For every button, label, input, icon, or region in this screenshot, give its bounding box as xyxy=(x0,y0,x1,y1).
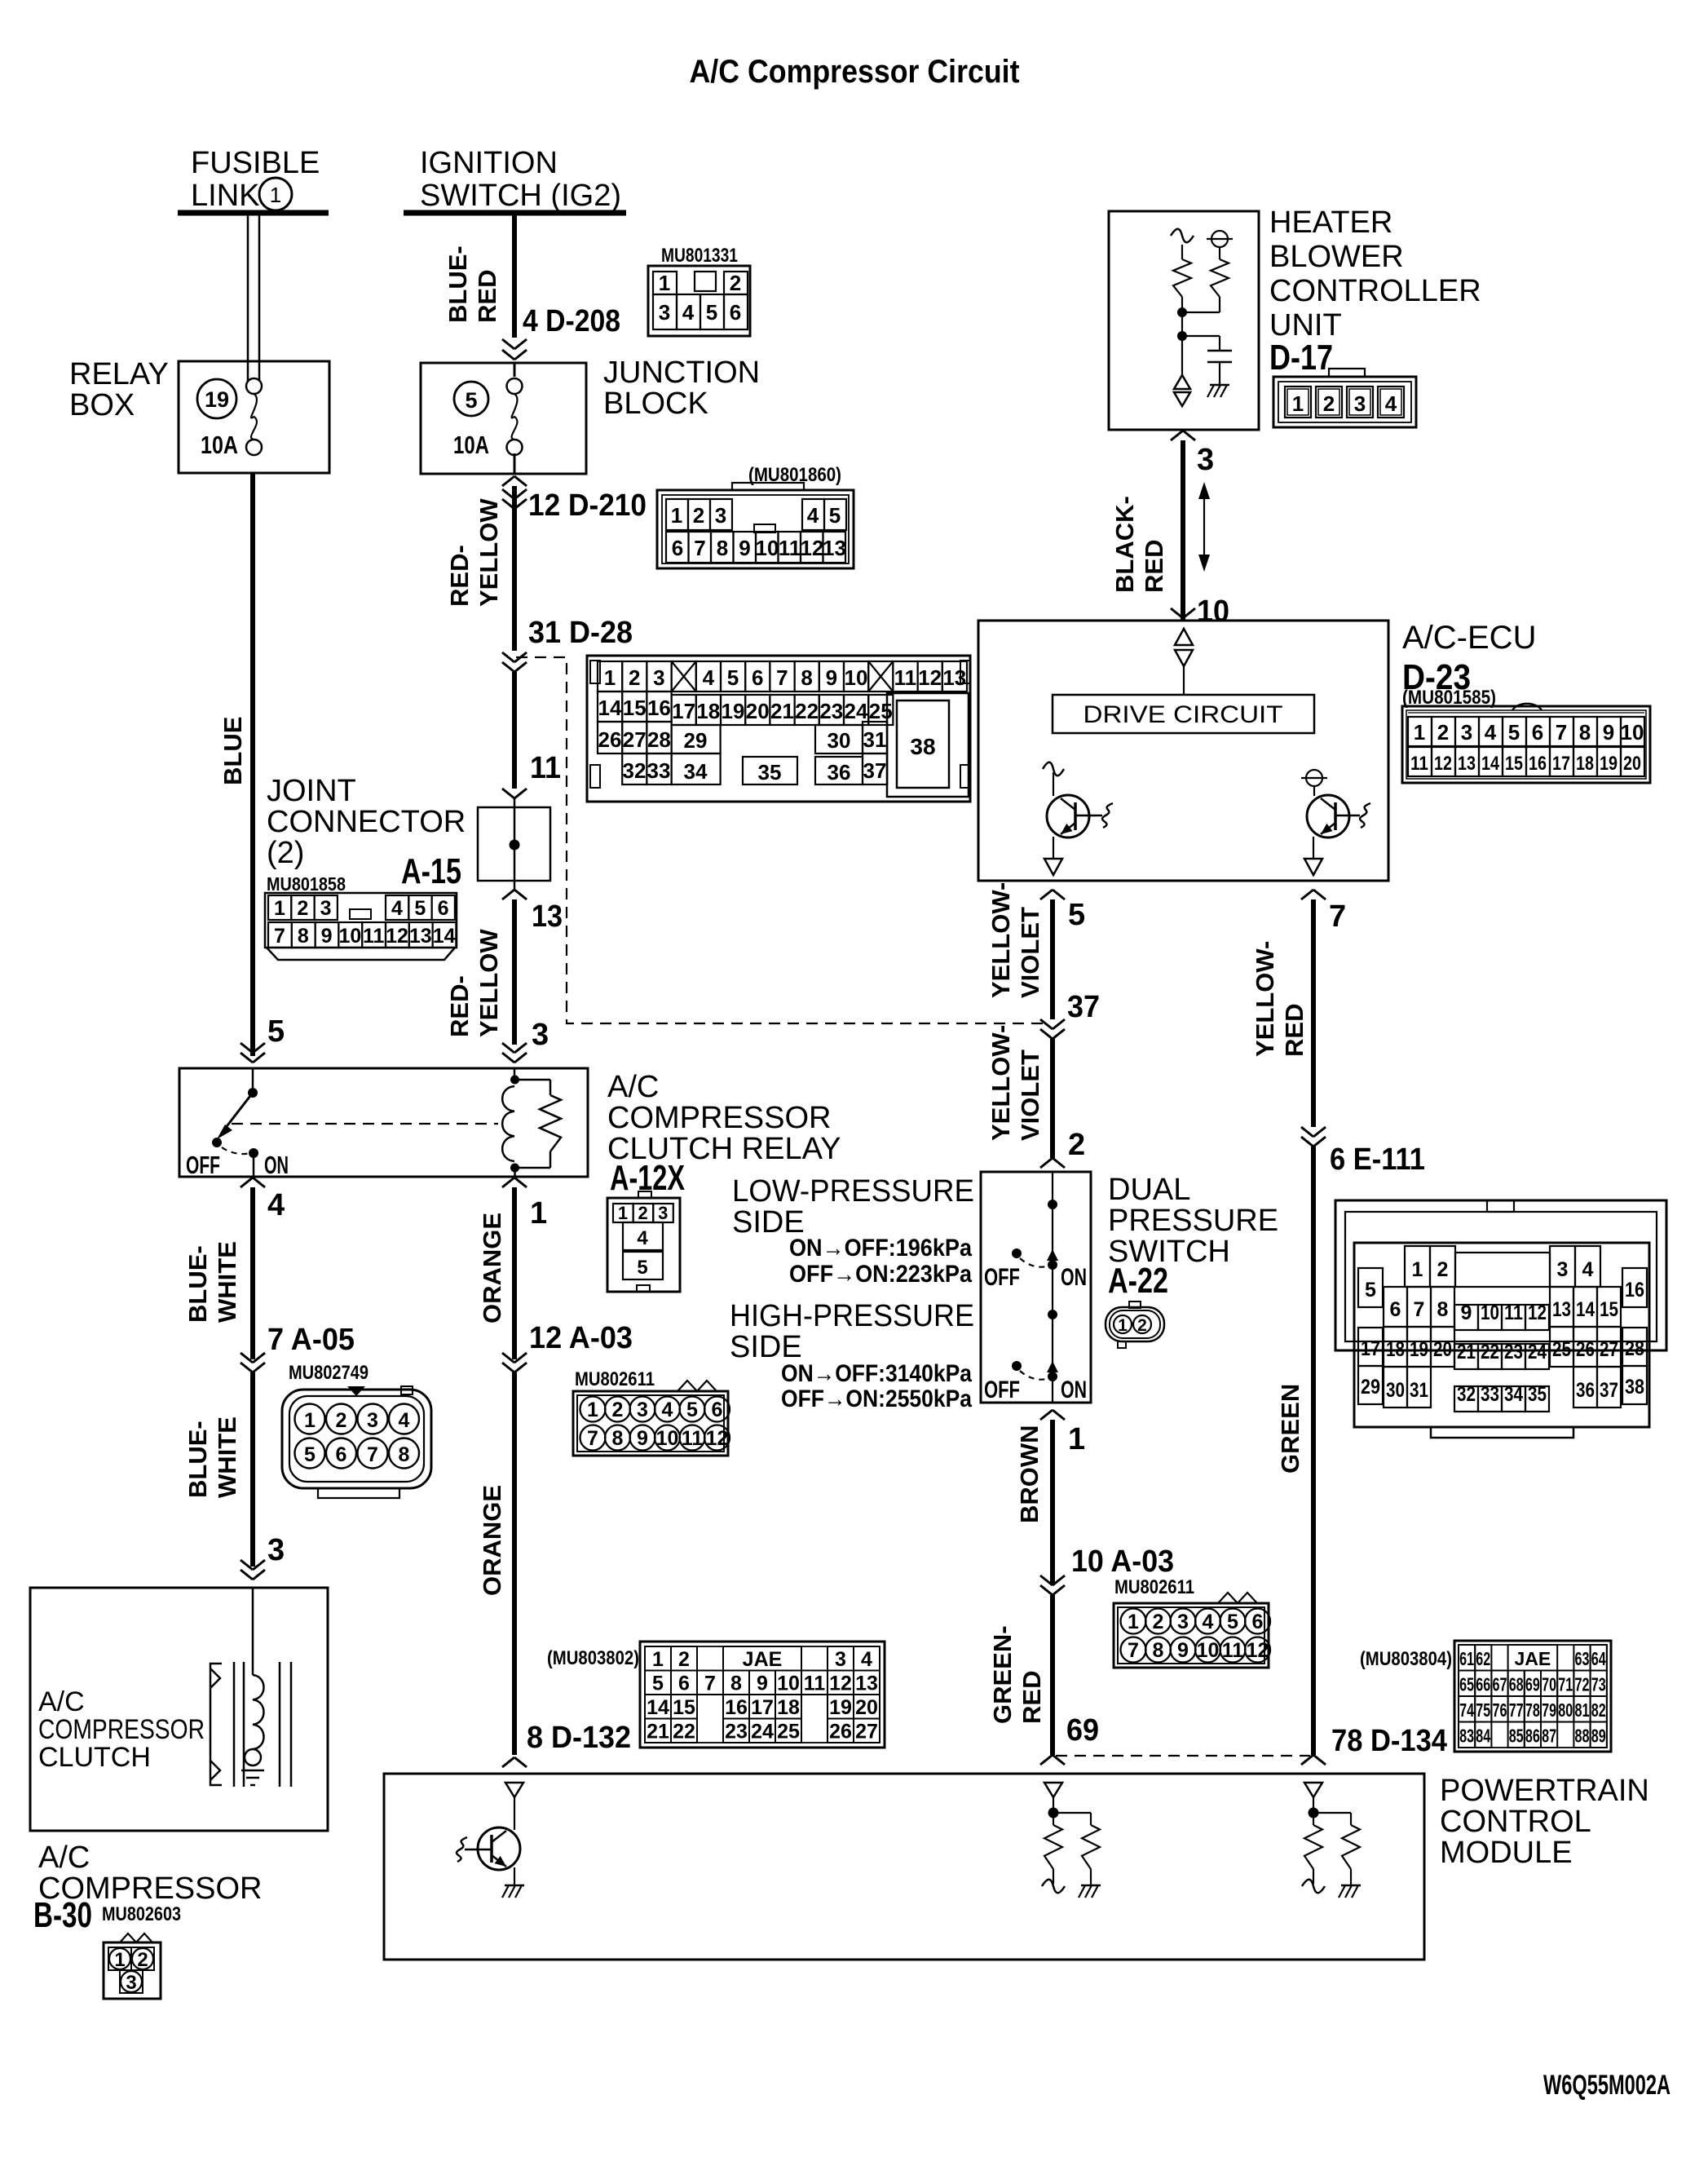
svg-text:26: 26 xyxy=(598,727,622,752)
svg-text:B-30: B-30 xyxy=(33,1895,92,1935)
connector D-210 MU801860 pin diagram xyxy=(657,464,854,568)
svg-text:2: 2 xyxy=(1137,1316,1147,1335)
svg-text:9: 9 xyxy=(637,1427,648,1450)
svg-text:16: 16 xyxy=(725,1696,748,1719)
svg-text:BOX: BOX xyxy=(69,388,135,422)
svg-text:RELAY: RELAY xyxy=(69,357,169,391)
svg-text:BLUE-: BLUE- xyxy=(183,1421,212,1498)
svg-text:2: 2 xyxy=(638,1203,647,1223)
svg-text:3: 3 xyxy=(320,897,332,920)
svg-text:9: 9 xyxy=(826,665,837,690)
svg-text:ON: ON xyxy=(1061,1264,1087,1291)
svg-text:14: 14 xyxy=(1481,753,1500,775)
svg-text:JUNCTION: JUNCTION xyxy=(603,356,760,390)
dual pressure switch box A-22 xyxy=(981,1172,1091,1403)
svg-text:4: 4 xyxy=(391,897,403,920)
svg-text:1: 1 xyxy=(1068,1422,1085,1456)
svg-text:A/C: A/C xyxy=(38,1686,85,1717)
svg-text:4: 4 xyxy=(399,1409,410,1432)
svg-text:15: 15 xyxy=(1600,1298,1618,1321)
svg-text:9: 9 xyxy=(1177,1639,1189,1662)
connector A-03 MU802611 pin diagram (first) xyxy=(573,1368,730,1456)
svg-text:2: 2 xyxy=(137,1949,148,1971)
svg-text:RED: RED xyxy=(473,270,501,323)
label D-23 xyxy=(1402,657,1496,709)
svg-text:MU802603: MU802603 xyxy=(102,1903,181,1925)
svg-text:(MU803804): (MU803804) xyxy=(1360,1648,1452,1670)
svg-text:12: 12 xyxy=(801,536,824,560)
svg-text:6: 6 xyxy=(336,1443,347,1466)
label 78 D-134 xyxy=(1301,1724,1447,1765)
svg-text:OFF: OFF xyxy=(984,1377,1020,1403)
svg-text:38: 38 xyxy=(910,734,935,759)
svg-text:64: 64 xyxy=(1591,1648,1606,1669)
svg-text:3: 3 xyxy=(1197,443,1214,477)
svg-text:13: 13 xyxy=(942,665,966,690)
svg-text:5: 5 xyxy=(706,300,717,325)
ECU transistor Q2 xyxy=(1301,770,1370,875)
svg-text:12: 12 xyxy=(386,925,408,948)
svg-text:3: 3 xyxy=(367,1409,378,1432)
svg-text:IGNITION: IGNITION xyxy=(420,146,558,180)
svg-text:18: 18 xyxy=(777,1696,800,1719)
wire to compressor clutch pin 3 xyxy=(241,1533,285,1580)
svg-text:19: 19 xyxy=(1600,753,1618,775)
svg-text:31: 31 xyxy=(1410,1379,1428,1402)
svg-text:BLUE-: BLUE- xyxy=(183,1245,212,1323)
svg-text:HIGH-PRESSURE: HIGH-PRESSURE xyxy=(730,1299,974,1333)
svg-text:MU802611: MU802611 xyxy=(575,1368,655,1390)
label A-22 xyxy=(1108,1261,1168,1301)
fusible link wire (double line) xyxy=(248,215,259,383)
svg-text:10: 10 xyxy=(1621,720,1644,745)
PCM transistor for clutch relay drive xyxy=(457,1783,524,1898)
svg-text:YELLOW-: YELLOW- xyxy=(986,1025,1015,1141)
svg-text:6: 6 xyxy=(752,665,763,690)
svg-text:6: 6 xyxy=(672,536,683,560)
svg-text:21: 21 xyxy=(647,1721,669,1743)
svg-text:MU801858: MU801858 xyxy=(267,873,346,895)
svg-text:BLUE: BLUE xyxy=(218,717,247,785)
svg-text:1: 1 xyxy=(1128,1611,1139,1633)
svg-text:11: 11 xyxy=(894,665,917,690)
svg-text:BLOCK: BLOCK xyxy=(603,387,708,421)
svg-text:7: 7 xyxy=(1329,899,1346,934)
svg-text:85: 85 xyxy=(1509,1726,1524,1747)
svg-text:37: 37 xyxy=(863,758,887,783)
heater blower controller unit label xyxy=(1269,205,1481,342)
svg-text:30: 30 xyxy=(1386,1379,1405,1402)
svg-text:5: 5 xyxy=(686,1399,698,1421)
A/C compressor clutch box xyxy=(30,1588,328,1831)
svg-text:84: 84 xyxy=(1476,1726,1490,1747)
svg-text:13: 13 xyxy=(409,925,432,948)
svg-text:JAE: JAE xyxy=(743,1648,783,1671)
ignition switch bus bar xyxy=(404,210,626,216)
svg-text:28: 28 xyxy=(1625,1337,1644,1360)
heater blower interior left resistor branch xyxy=(1171,229,1194,375)
svg-text:RED: RED xyxy=(1280,1004,1309,1057)
svg-text:2: 2 xyxy=(297,897,308,920)
svg-text:21: 21 xyxy=(770,699,794,723)
svg-text:66: 66 xyxy=(1476,1674,1490,1695)
svg-text:COMPRESSOR: COMPRESSOR xyxy=(607,1101,831,1135)
svg-text:4: 4 xyxy=(267,1188,285,1222)
svg-text:72: 72 xyxy=(1575,1674,1590,1695)
svg-text:2: 2 xyxy=(693,503,704,528)
svg-text:10: 10 xyxy=(656,1427,679,1450)
svg-text:15: 15 xyxy=(673,1696,695,1719)
svg-text:1: 1 xyxy=(659,271,670,295)
svg-text:MU801331: MU801331 xyxy=(661,245,738,267)
wire RED-YELLOW pins 11-13 xyxy=(267,751,563,1052)
label 69 xyxy=(1040,1713,1099,1765)
svg-text:CONTROL: CONTROL xyxy=(1440,1805,1591,1839)
svg-text:RED-: RED- xyxy=(445,545,474,607)
connector break 10 A-03 xyxy=(988,1545,1174,1755)
svg-text:4 D-208: 4 D-208 xyxy=(523,304,620,338)
svg-text:OFF: OFF xyxy=(984,1264,1020,1291)
svg-text:38: 38 xyxy=(1625,1376,1644,1399)
svg-text:5: 5 xyxy=(1508,720,1520,745)
PCM pull-up resistors for pressure switch input xyxy=(1042,1783,1101,1898)
svg-text:PRESSURE: PRESSURE xyxy=(1108,1204,1278,1238)
svg-text:8: 8 xyxy=(801,665,812,690)
connector D-17 pin diagram xyxy=(1273,369,1416,427)
svg-text:68: 68 xyxy=(1509,1674,1524,1695)
svg-text:3: 3 xyxy=(715,503,726,528)
svg-text:12: 12 xyxy=(1528,1301,1547,1324)
svg-text:RED-: RED- xyxy=(445,975,474,1037)
svg-text:14: 14 xyxy=(433,925,456,948)
junction block box xyxy=(421,363,586,474)
svg-text:JOINT: JOINT xyxy=(267,774,356,808)
svg-text:10: 10 xyxy=(777,1673,800,1695)
svg-text:37: 37 xyxy=(1600,1379,1618,1402)
svg-text:7: 7 xyxy=(776,665,788,690)
connector A-03 MU802611 pin diagram (second) xyxy=(1114,1576,1270,1668)
svg-text:2: 2 xyxy=(1153,1611,1164,1633)
junction block label xyxy=(603,356,760,421)
svg-text:10: 10 xyxy=(1197,1639,1220,1662)
svg-text:13: 13 xyxy=(1552,1298,1571,1321)
svg-text:22: 22 xyxy=(795,699,819,723)
svg-text:MU802611: MU802611 xyxy=(1114,1576,1194,1598)
svg-text:12 D-210: 12 D-210 xyxy=(528,488,647,523)
svg-text:19: 19 xyxy=(829,1696,852,1719)
svg-text:SWITCH (IG2): SWITCH (IG2) xyxy=(420,179,621,213)
svg-text:9: 9 xyxy=(757,1673,768,1695)
svg-text:30: 30 xyxy=(828,728,851,753)
svg-text:1: 1 xyxy=(114,1949,125,1971)
svg-text:WHITE: WHITE xyxy=(213,1241,241,1323)
svg-text:1: 1 xyxy=(1414,720,1425,745)
svg-text:12 A-03: 12 A-03 xyxy=(529,1321,633,1355)
svg-text:5: 5 xyxy=(727,665,739,690)
wire BLUE-RED from ignition switch xyxy=(444,213,514,338)
svg-text:7: 7 xyxy=(587,1427,598,1450)
svg-text:37: 37 xyxy=(1067,990,1100,1024)
svg-text:2: 2 xyxy=(678,1648,690,1671)
svg-text:ON→OFF:3140kPa: ON→OFF:3140kPa xyxy=(781,1360,972,1387)
svg-text:24: 24 xyxy=(1528,1341,1547,1363)
svg-text:12: 12 xyxy=(918,665,942,690)
svg-text:MODULE: MODULE xyxy=(1440,1836,1573,1870)
svg-text:17: 17 xyxy=(1552,753,1570,775)
wire ORANGE relay to PCM xyxy=(478,1178,547,1359)
svg-text:3: 3 xyxy=(835,1648,846,1671)
wire YELLOW-RED ECU to E-111 xyxy=(1251,890,1346,1127)
svg-text:6: 6 xyxy=(1532,720,1543,745)
svg-text:2: 2 xyxy=(730,271,741,295)
svg-text:11: 11 xyxy=(1222,1639,1244,1662)
svg-text:12: 12 xyxy=(1247,1639,1269,1662)
pressure switch internal wire xyxy=(1048,1172,1057,1403)
wire BLUE-WHITE below relay xyxy=(183,1178,285,1359)
svg-text:6: 6 xyxy=(712,1399,723,1421)
svg-text:8: 8 xyxy=(1153,1639,1164,1662)
svg-text:8: 8 xyxy=(1579,720,1591,745)
svg-text:10: 10 xyxy=(756,536,779,560)
svg-text:CONTROLLER: CONTROLLER xyxy=(1269,274,1481,308)
wire BLACK-RED heater to A/C-ECU xyxy=(1110,431,1214,621)
connector A-12X pin diagram xyxy=(607,1191,680,1292)
svg-text:6 E-111: 6 E-111 xyxy=(1330,1142,1425,1177)
svg-text:81: 81 xyxy=(1575,1699,1590,1721)
svg-text:7: 7 xyxy=(1556,720,1567,745)
svg-text:31 D-28: 31 D-28 xyxy=(528,616,633,650)
break above clutch relay xyxy=(241,1043,527,1063)
connector B-30 pin diagram xyxy=(104,1933,161,1999)
connector break 7 A-05 xyxy=(183,1323,355,1567)
svg-text:62: 62 xyxy=(1476,1648,1490,1669)
svg-text:17: 17 xyxy=(1361,1337,1380,1360)
svg-text:5: 5 xyxy=(465,388,477,413)
ECU input triangles xyxy=(1175,629,1193,695)
svg-text:12: 12 xyxy=(706,1427,729,1450)
svg-text:23: 23 xyxy=(1504,1341,1523,1363)
svg-text:79: 79 xyxy=(1542,1699,1556,1721)
svg-text:8: 8 xyxy=(1437,1298,1449,1321)
heater blower interior right resistor branch xyxy=(1182,231,1233,312)
svg-text:5: 5 xyxy=(829,503,841,528)
svg-text:VIOLET: VIOLET xyxy=(1016,1050,1044,1141)
svg-text:5: 5 xyxy=(637,1257,647,1279)
svg-text:5: 5 xyxy=(267,1014,285,1049)
svg-text:3: 3 xyxy=(1354,391,1366,416)
svg-text:61: 61 xyxy=(1459,1648,1474,1669)
svg-text:25: 25 xyxy=(869,699,893,723)
svg-text:24: 24 xyxy=(751,1721,774,1743)
svg-text:10A: 10A xyxy=(201,431,238,459)
svg-text:3: 3 xyxy=(637,1399,648,1421)
svg-text:13: 13 xyxy=(855,1673,878,1695)
connector D-132 MU803802 pin diagram xyxy=(547,1642,885,1748)
svg-text:19: 19 xyxy=(205,387,229,412)
svg-text:35: 35 xyxy=(1528,1383,1547,1406)
svg-text:13: 13 xyxy=(532,899,563,934)
svg-text:DRIVE CIRCUIT: DRIVE CIRCUIT xyxy=(1083,701,1283,728)
svg-text:OFF→ON:223kPa: OFF→ON:223kPa xyxy=(789,1261,972,1288)
svg-text:9: 9 xyxy=(1461,1301,1472,1324)
svg-text:BLUE-: BLUE- xyxy=(444,245,472,323)
svg-text:36: 36 xyxy=(828,760,851,784)
ignition switch (IG2) label xyxy=(420,146,621,213)
svg-text:67: 67 xyxy=(1493,1674,1507,1695)
connector joint 31 D-28 xyxy=(445,616,633,1037)
clutch relay label xyxy=(607,1070,841,1166)
svg-text:23: 23 xyxy=(725,1721,748,1743)
svg-text:24: 24 xyxy=(845,699,868,723)
svg-text:7 A-05: 7 A-05 xyxy=(267,1323,355,1357)
connector E-111 pin diagram xyxy=(1335,1200,1666,1438)
svg-text:69: 69 xyxy=(1525,1674,1540,1695)
svg-text:12: 12 xyxy=(1434,753,1452,775)
svg-text:BLOWER: BLOWER xyxy=(1269,240,1404,274)
svg-text:SIDE: SIDE xyxy=(730,1330,802,1364)
svg-text:34: 34 xyxy=(1504,1383,1523,1406)
svg-text:4: 4 xyxy=(861,1648,872,1671)
drawing number W6Q55M002A xyxy=(1543,2070,1670,2101)
relay switch OFF/ON xyxy=(186,1068,289,1179)
svg-text:22: 22 xyxy=(673,1721,695,1743)
svg-text:8: 8 xyxy=(399,1443,410,1466)
svg-text:1: 1 xyxy=(652,1648,664,1671)
svg-text:5: 5 xyxy=(414,897,426,920)
svg-text:10A: 10A xyxy=(453,431,489,459)
svg-text:MU802749: MU802749 xyxy=(289,1362,369,1384)
svg-text:3: 3 xyxy=(658,1203,668,1223)
svg-text:3: 3 xyxy=(1461,720,1472,745)
relay box xyxy=(179,361,329,473)
svg-text:ON: ON xyxy=(264,1151,289,1179)
svg-text:65: 65 xyxy=(1459,1674,1474,1695)
svg-text:1: 1 xyxy=(304,1409,316,1432)
svg-text:1: 1 xyxy=(1292,391,1304,416)
wire BROWN pressure switch to A-03 xyxy=(1015,1410,1085,1585)
svg-text:32: 32 xyxy=(1457,1383,1476,1406)
svg-text:6: 6 xyxy=(730,300,741,325)
svg-text:RED: RED xyxy=(1017,1671,1046,1724)
fuse 5 10A in junction block xyxy=(453,363,523,474)
svg-text:17: 17 xyxy=(672,699,695,723)
svg-text:CLUTCH: CLUTCH xyxy=(38,1742,151,1773)
svg-text:78 D-134: 78 D-134 xyxy=(1331,1724,1447,1758)
drive circuit box xyxy=(1053,695,1314,733)
svg-text:36: 36 xyxy=(1576,1379,1595,1402)
svg-text:63: 63 xyxy=(1575,1648,1590,1669)
svg-text:4: 4 xyxy=(682,300,695,325)
svg-text:9: 9 xyxy=(321,925,333,948)
svg-text:HEATER: HEATER xyxy=(1269,205,1392,240)
connector A-15 MU801858 pin diagram xyxy=(265,873,457,960)
connector A-22 pin diagram xyxy=(1106,1301,1164,1348)
svg-text:6: 6 xyxy=(1252,1611,1264,1633)
svg-text:26: 26 xyxy=(829,1721,852,1743)
dual pressure switch label xyxy=(1108,1173,1278,1269)
svg-text:2: 2 xyxy=(629,665,640,690)
svg-text:23: 23 xyxy=(819,699,843,723)
svg-text:18: 18 xyxy=(696,699,720,723)
joint connector A-15 box on wire xyxy=(478,789,550,890)
svg-text:21: 21 xyxy=(1457,1341,1476,1363)
svg-text:32: 32 xyxy=(623,758,647,783)
svg-text:ON: ON xyxy=(1061,1377,1087,1403)
svg-text:10 A-03: 10 A-03 xyxy=(1071,1545,1174,1579)
svg-text:87: 87 xyxy=(1542,1726,1556,1747)
svg-text:71: 71 xyxy=(1558,1674,1573,1695)
connector break 6 E-111 xyxy=(1276,1127,1425,1755)
svg-text:18: 18 xyxy=(1576,753,1594,775)
svg-text:29: 29 xyxy=(1361,1376,1380,1399)
high pressure switch contacts xyxy=(984,1361,1087,1403)
svg-text:18: 18 xyxy=(1386,1338,1405,1361)
svg-text:1: 1 xyxy=(270,183,281,207)
svg-text:3: 3 xyxy=(1557,1258,1569,1281)
svg-text:ORANGE: ORANGE xyxy=(478,1485,506,1596)
svg-text:A/C: A/C xyxy=(38,1841,90,1875)
powertrain control module label xyxy=(1440,1774,1649,1870)
svg-text:1: 1 xyxy=(1412,1258,1423,1281)
svg-text:3: 3 xyxy=(126,1972,136,1994)
svg-text:6: 6 xyxy=(678,1673,690,1695)
powertrain control module box xyxy=(384,1774,1424,1960)
svg-text:9: 9 xyxy=(1603,720,1614,745)
two-way arrow on BLACK-RED wire xyxy=(1198,482,1210,572)
svg-text:LOW-PRESSURE: LOW-PRESSURE xyxy=(732,1174,974,1209)
svg-text:33: 33 xyxy=(647,758,671,783)
svg-text:(MU803802): (MU803802) xyxy=(547,1647,639,1669)
connector D-134 MU803804 pin diagram xyxy=(1360,1641,1611,1752)
svg-text:8: 8 xyxy=(717,536,728,560)
svg-text:ON→OFF:196kPa: ON→OFF:196kPa xyxy=(789,1235,972,1262)
svg-text:9: 9 xyxy=(739,536,750,560)
svg-text:27: 27 xyxy=(623,727,647,752)
svg-text:3: 3 xyxy=(1177,1611,1189,1633)
svg-text:4: 4 xyxy=(807,503,819,528)
svg-text:83: 83 xyxy=(1459,1726,1474,1747)
svg-text:17: 17 xyxy=(751,1696,774,1719)
relay coil and resistor xyxy=(502,1068,561,1177)
svg-text:JAE: JAE xyxy=(1515,1648,1551,1669)
svg-text:4: 4 xyxy=(1203,1611,1214,1633)
svg-text:3: 3 xyxy=(532,1018,549,1052)
svg-text:75: 75 xyxy=(1476,1699,1490,1721)
svg-text:GREEN: GREEN xyxy=(1276,1384,1304,1474)
fuse 19 10A in relay box xyxy=(197,378,262,459)
label A-12X xyxy=(610,1158,685,1198)
svg-text:10: 10 xyxy=(1197,594,1229,629)
connector joint 12 D-210 xyxy=(528,488,647,523)
wire BLUE relay box to clutch relay xyxy=(218,473,253,1056)
title A/C Compressor Circuit xyxy=(690,54,1020,90)
svg-text:14: 14 xyxy=(1576,1298,1595,1321)
A/C compressor label xyxy=(38,1841,262,1906)
svg-text:2: 2 xyxy=(336,1409,347,1432)
svg-text:10: 10 xyxy=(338,925,361,948)
svg-text:26: 26 xyxy=(1576,1338,1595,1361)
svg-text:5: 5 xyxy=(304,1443,316,1466)
svg-text:6: 6 xyxy=(438,897,449,920)
label 2 above pressure switch xyxy=(1040,1128,1085,1168)
svg-text:11: 11 xyxy=(682,1427,704,1450)
connector MU801331 pin diagram xyxy=(648,245,750,336)
A/C-ECU label xyxy=(1402,620,1536,656)
svg-text:5: 5 xyxy=(652,1673,664,1695)
svg-text:LINK: LINK xyxy=(191,179,259,213)
svg-text:YELLOW: YELLOW xyxy=(474,929,503,1037)
svg-text:2: 2 xyxy=(1068,1128,1085,1162)
